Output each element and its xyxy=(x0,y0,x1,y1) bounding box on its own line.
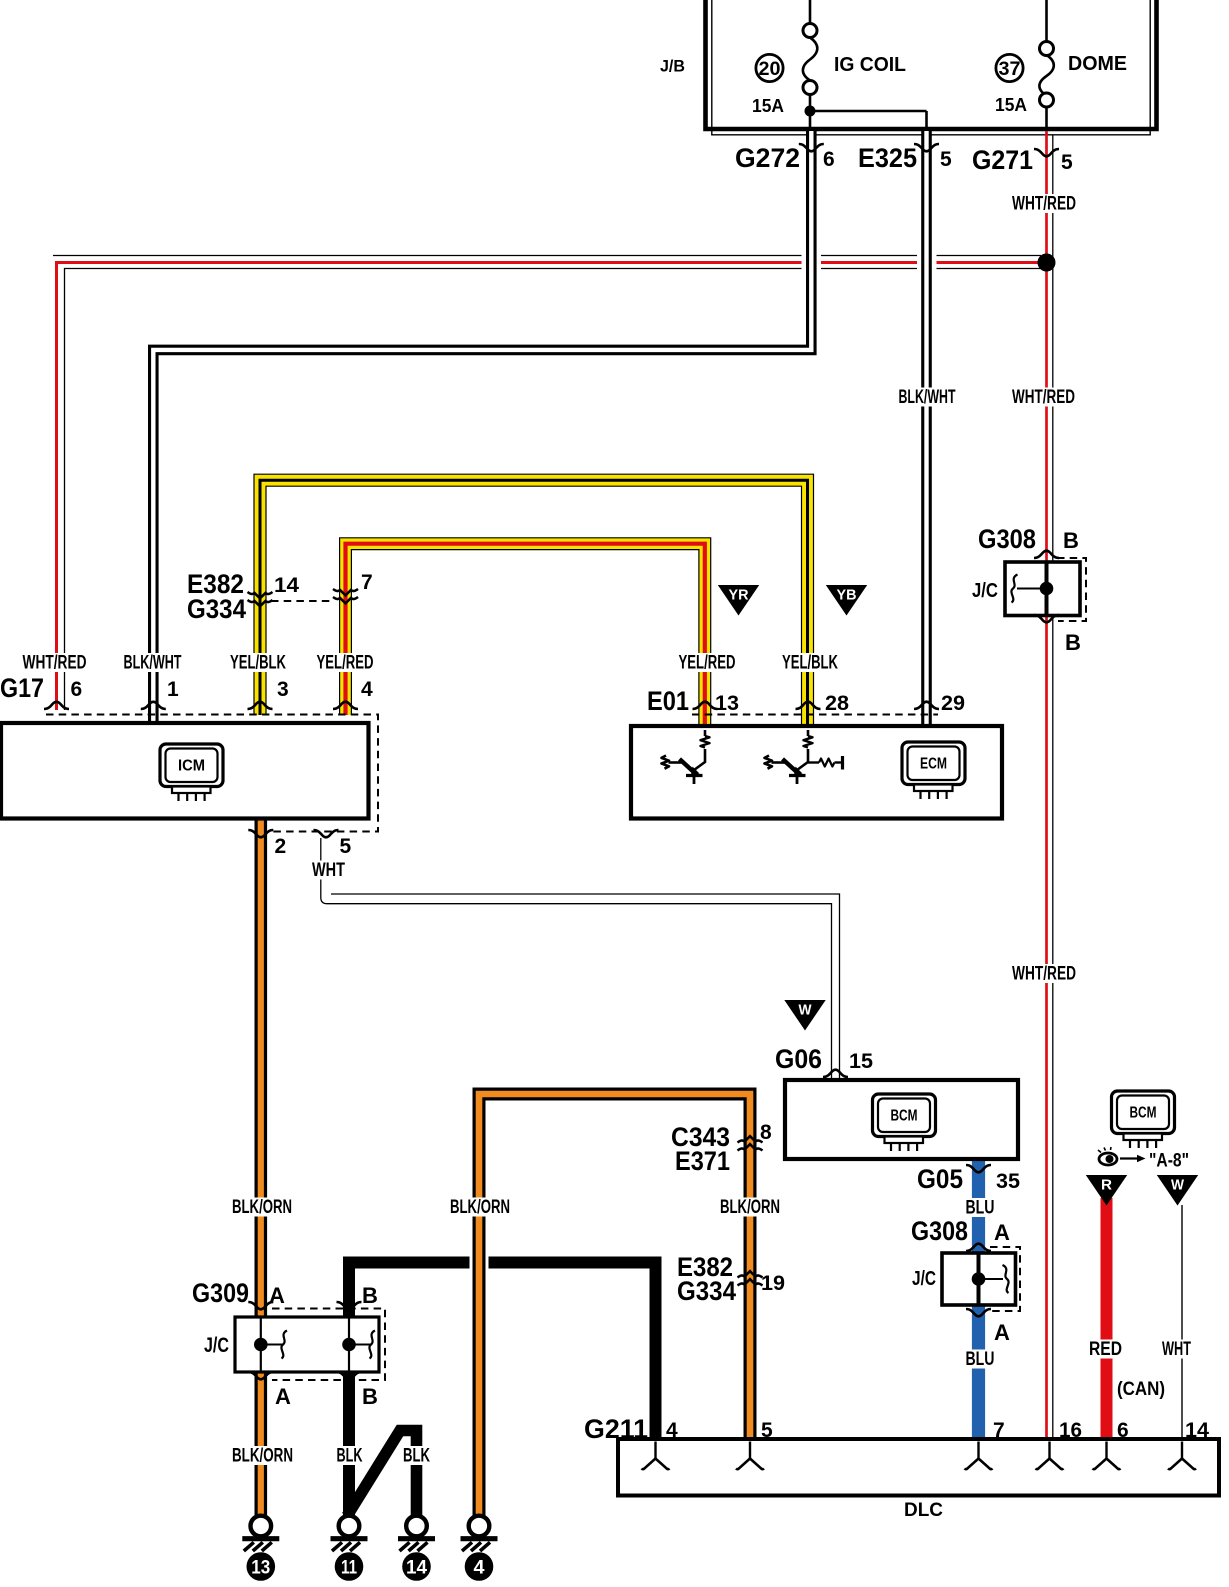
pin B G309 top xyxy=(362,1283,378,1308)
ground 13 xyxy=(242,1516,279,1581)
connector bracket G308 pinA top xyxy=(966,1244,991,1251)
svg-text:37: 37 xyxy=(999,58,1021,80)
pin 35 G05 xyxy=(996,1170,1020,1193)
connector bracket G06 pin15 xyxy=(823,1070,848,1077)
module icon ICM xyxy=(160,744,223,801)
label G308 (lower) xyxy=(911,1216,968,1246)
svg-text:W: W xyxy=(799,1003,812,1019)
pin A G308 lower bottom xyxy=(994,1320,1010,1345)
pin 7 E382/G334 xyxy=(361,571,373,594)
connector chevrons E382/G334 pin14 xyxy=(248,592,273,606)
svg-text:RED: RED xyxy=(1089,1339,1122,1360)
pin 14 E382/G334 xyxy=(274,574,299,597)
label G334 (lower) xyxy=(677,1276,736,1306)
label BLK/ORN (loop right) xyxy=(717,1197,783,1218)
dashed link E382/G334 top xyxy=(271,600,333,602)
label WHT/RED (right, mid) xyxy=(1009,964,1079,985)
label E382 (top) xyxy=(187,569,244,599)
fuse 37 DOME 15A xyxy=(995,0,1127,131)
pin 6 G17 xyxy=(71,678,83,701)
label E371 xyxy=(675,1146,730,1176)
label WHT/RED (G17 pin6 wire) xyxy=(20,653,90,674)
svg-text:R: R xyxy=(1101,1178,1113,1194)
wire WHT/RED vertical G271 pin5 to DLC pin16 xyxy=(1047,131,1053,1439)
module icon BCM standalone top right xyxy=(1112,1091,1175,1148)
svg-text:G271: G271 xyxy=(972,145,1033,175)
DLC pin 7 symbol xyxy=(965,1442,993,1470)
DLC pin 6 symbol xyxy=(1093,1442,1121,1470)
label BLK/WHT (E325 wire) xyxy=(896,387,959,408)
svg-text:3: 3 xyxy=(277,678,289,701)
svg-text:G05: G05 xyxy=(917,1164,963,1194)
svg-text:BCM: BCM xyxy=(891,1108,918,1125)
svg-text:G272: G272 xyxy=(735,143,800,173)
svg-text:6: 6 xyxy=(71,678,83,701)
label BLU (upper) xyxy=(963,1198,998,1219)
connector bracket G308 pinB bottom xyxy=(1034,615,1059,622)
svg-text:BLK/ORN: BLK/ORN xyxy=(232,1446,293,1467)
svg-text:W: W xyxy=(1171,1178,1184,1194)
wire YEL/BLK ICM pin3 to ECM pin28 xyxy=(260,480,808,726)
pin 1 G17 xyxy=(167,678,179,701)
svg-text:B: B xyxy=(362,1283,378,1308)
DLC connector box G211 xyxy=(618,1439,1219,1496)
svg-text:15A: 15A xyxy=(995,94,1027,115)
connector chevrons E382/G334 pin19 xyxy=(738,1271,763,1285)
svg-text:1: 1 xyxy=(167,678,179,701)
DLC pin 16 symbol xyxy=(1036,1442,1064,1470)
svg-text:B: B xyxy=(1065,630,1081,655)
label J/C (G308 top) xyxy=(972,580,998,602)
label G06 xyxy=(775,1044,822,1074)
label G272 xyxy=(735,143,800,173)
svg-text:11: 11 xyxy=(341,1558,357,1579)
svg-text:J/C: J/C xyxy=(204,1334,229,1357)
label G05 xyxy=(917,1164,963,1194)
svg-text:BLK/WHT: BLK/WHT xyxy=(124,653,182,674)
svg-text:BLK: BLK xyxy=(403,1446,430,1467)
svg-text:19: 19 xyxy=(761,1272,785,1295)
BCM connector box G06 xyxy=(785,1080,1018,1159)
label BLK/WHT (ICM pin1 wire) xyxy=(121,653,185,674)
connector bracket G17 pin4 xyxy=(333,702,358,709)
connector bracket ICM pin2 xyxy=(248,830,273,837)
svg-text:14: 14 xyxy=(1185,1419,1209,1442)
junction connector G309 (bottom left) xyxy=(235,1317,379,1372)
svg-text:BCM: BCM xyxy=(1130,1105,1157,1122)
label WHT (ICM pin5 wire) xyxy=(309,860,348,881)
svg-text:BLK/ORN: BLK/ORN xyxy=(720,1197,780,1218)
svg-text:6: 6 xyxy=(823,148,835,171)
svg-text:BLK/WHT: BLK/WHT xyxy=(899,387,956,408)
svg-text:A: A xyxy=(994,1320,1010,1345)
connector chevrons C343/E371 pin8 xyxy=(738,1136,763,1150)
label BLK (ground 11 wire) xyxy=(334,1446,366,1467)
label E01 xyxy=(647,686,689,716)
pin 5 DLC xyxy=(761,1419,773,1442)
label G211 xyxy=(584,1414,648,1444)
svg-text:WHT/RED: WHT/RED xyxy=(1012,387,1075,408)
connector bracket G17 pin3 xyxy=(248,702,273,709)
junction dot fuse20 output xyxy=(805,106,927,132)
wire WHT (CAN) to DLC pin14 xyxy=(1181,1205,1183,1439)
pin A G309 top xyxy=(269,1283,285,1308)
wire BLK/WHT G272 pin6 to ICM pin1 xyxy=(153,131,811,723)
svg-text:BLK: BLK xyxy=(337,1446,363,1467)
connector bracket E325 pin5 xyxy=(914,144,939,151)
label E382 (lower) xyxy=(677,1252,733,1282)
svg-text:35: 35 xyxy=(996,1170,1020,1193)
pin 16 DLC xyxy=(1059,1419,1082,1442)
label YEL/BLK (E01 pin28 wire) xyxy=(779,653,841,674)
svg-text:15: 15 xyxy=(849,1050,873,1073)
pin 8 C343 xyxy=(760,1121,772,1144)
svg-text:2: 2 xyxy=(275,835,287,858)
pin 14 DLC xyxy=(1185,1419,1209,1442)
ground 14 xyxy=(398,1516,435,1581)
pin 15 G06 xyxy=(849,1050,873,1073)
dashed box G309 xyxy=(272,1309,385,1381)
connector bracket E01 pin13 xyxy=(693,702,718,709)
wire BLK G309 pin B to DLC pin4 xyxy=(349,1263,656,1518)
junction connector G308 (top right) xyxy=(1005,562,1080,616)
pin 5 ICM xyxy=(340,835,352,858)
svg-text:J/C: J/C xyxy=(912,1268,936,1290)
pin 2 ICM xyxy=(275,835,287,858)
svg-text:J/B: J/B xyxy=(660,57,685,76)
label RED (CAN wire) xyxy=(1086,1339,1125,1360)
svg-text:BLK/ORN: BLK/ORN xyxy=(232,1197,292,1218)
svg-text:5: 5 xyxy=(761,1419,773,1442)
label BLK (ground 14 wire) xyxy=(400,1446,433,1467)
pin 13 E01 xyxy=(715,692,739,715)
label BLK/ORN (ground 13 wire) xyxy=(229,1446,296,1467)
label WHT/RED (G271 wire) xyxy=(1009,194,1079,215)
junction dot WHT/RED xyxy=(1038,254,1056,272)
label (CAN) xyxy=(1117,1379,1165,1400)
pin B G308 top xyxy=(1063,528,1079,553)
wire WHT/RED horizontal run G271 to G17 xyxy=(53,256,1042,711)
wire BLU BCM G05 pin35 to DLC pin7 xyxy=(972,1159,985,1439)
label G308 (top) xyxy=(978,524,1036,554)
dashed box G308 top xyxy=(1057,558,1086,621)
connector bracket G05 pin35 xyxy=(966,1165,991,1172)
svg-text:G309: G309 xyxy=(192,1278,249,1308)
wire BLK ground 11 to ground 14 branch xyxy=(347,1431,417,1518)
pin B G308 bottom xyxy=(1065,630,1081,655)
svg-text:YEL/BLK: YEL/BLK xyxy=(230,653,286,674)
connector bracket ICM pin5 xyxy=(314,830,339,837)
dashed connector line G17 xyxy=(46,715,378,832)
module icon ECM xyxy=(902,742,965,799)
ground 4 xyxy=(461,1516,498,1581)
dashed box G308 lower xyxy=(990,1247,1020,1311)
label BLU (lower) xyxy=(963,1349,998,1370)
wire WHT ICM pin5 to BCM G06 pin15 xyxy=(321,838,840,1080)
svg-text:WHT/RED: WHT/RED xyxy=(1012,194,1076,215)
label YEL/RED (ICM pin4 wire) xyxy=(314,653,377,674)
junction connector G308 (lower, BLU) xyxy=(942,1253,1016,1305)
junction block J/B box xyxy=(706,0,1157,135)
pin 5 G271 xyxy=(1061,151,1073,174)
DLC pin 14 symbol xyxy=(1168,1442,1196,1470)
svg-text:G17: G17 xyxy=(0,673,44,703)
svg-text:A: A xyxy=(275,1384,291,1409)
svg-text:A: A xyxy=(269,1283,285,1308)
svg-text:BLK/ORN: BLK/ORN xyxy=(450,1197,510,1218)
svg-text:IG COIL: IG COIL xyxy=(834,54,906,76)
svg-text:DLC: DLC xyxy=(904,1499,943,1521)
resistor in ECM right of pin28 transistor xyxy=(808,756,843,770)
svg-text:YEL/RED: YEL/RED xyxy=(679,653,736,674)
pin 28 E01 xyxy=(825,692,849,715)
pin 3 G17 xyxy=(277,678,289,701)
connector bracket G17 pin6 xyxy=(44,702,69,709)
connector bracket E01 pin29 xyxy=(914,702,939,709)
svg-text:4: 4 xyxy=(666,1419,678,1442)
ground 11 xyxy=(331,1516,368,1581)
svg-text:4: 4 xyxy=(474,1558,485,1579)
svg-text:G06: G06 xyxy=(775,1044,822,1074)
connector bracket G309 pinA top xyxy=(248,1302,273,1309)
svg-text:BLU: BLU xyxy=(966,1349,995,1370)
ICM connector box G17 xyxy=(1,723,369,819)
connector bracket G271 pin5 xyxy=(1034,149,1059,156)
svg-text:WHT/RED: WHT/RED xyxy=(1012,964,1076,985)
svg-text:7: 7 xyxy=(993,1419,1005,1442)
label G309 xyxy=(192,1278,249,1308)
svg-text:"A-8": "A-8" xyxy=(1149,1151,1189,1172)
pin 7 DLC xyxy=(993,1419,1005,1442)
pin 4 G17 xyxy=(361,678,373,701)
svg-text:G334: G334 xyxy=(677,1276,736,1306)
svg-text:13: 13 xyxy=(715,692,739,715)
svg-text:G211: G211 xyxy=(584,1414,648,1444)
fuse 20 IG COIL 15A xyxy=(752,0,906,131)
pin 19 E382 lower xyxy=(761,1272,785,1295)
triangle marker W (CAN wht) xyxy=(1157,1175,1198,1206)
wire BLK/ORN ground 4 loop to DLC pin5 xyxy=(479,1094,750,1517)
svg-text:20: 20 xyxy=(759,58,781,80)
svg-text:YR: YR xyxy=(729,588,750,604)
svg-text:ECM: ECM xyxy=(920,756,947,773)
svg-text:YEL/RED: YEL/RED xyxy=(317,653,374,674)
pin 4 DLC xyxy=(666,1419,678,1442)
svg-text:14: 14 xyxy=(274,574,299,597)
wire BLK/ORN ICM pin2 to G309 pinA to ground 13 xyxy=(254,819,267,1518)
label E325 xyxy=(858,143,917,173)
label BLK/ORN (ICM pin2 wire) xyxy=(229,1197,295,1218)
svg-text:15A: 15A xyxy=(752,95,784,116)
connector bracket E01 pin28 xyxy=(796,702,821,709)
label G271 xyxy=(972,145,1033,175)
svg-text:BLU: BLU xyxy=(966,1198,995,1219)
svg-text:YEL/BLK: YEL/BLK xyxy=(782,653,838,674)
svg-text:J/C: J/C xyxy=(972,580,998,602)
svg-text:14: 14 xyxy=(406,1558,427,1579)
connector bracket G309 pinB bottom xyxy=(337,1372,362,1379)
connector bracket G308 pinB top xyxy=(1034,551,1059,558)
label BLK/ORN (loop left) xyxy=(447,1197,513,1218)
pin 29 E01 xyxy=(941,692,965,715)
svg-text:4: 4 xyxy=(361,678,373,701)
label DLC xyxy=(904,1499,943,1521)
triangle marker R (CAN red) xyxy=(1086,1175,1127,1206)
svg-text:DOME: DOME xyxy=(1068,53,1127,75)
svg-text:E371: E371 xyxy=(675,1146,730,1176)
svg-text:E01: E01 xyxy=(647,686,689,716)
label J/C (G308 lower) xyxy=(912,1268,936,1290)
label J/B xyxy=(660,57,685,76)
label YEL/BLK (ICM pin3 wire) xyxy=(227,653,289,674)
wire YEL/RED ICM pin4 to ECM pin13 xyxy=(346,544,705,726)
svg-text:YB: YB xyxy=(837,588,857,604)
connector bracket G272 pin6 xyxy=(799,144,824,151)
svg-text:8: 8 xyxy=(760,1121,772,1144)
DLC pin 4 symbol xyxy=(642,1442,670,1470)
svg-text:B: B xyxy=(362,1384,378,1409)
dashed connector line E01 xyxy=(692,714,938,716)
transistor in ECM at pin28 with resistor xyxy=(765,730,813,784)
connector bracket G309 pinB top xyxy=(337,1302,362,1309)
connector bracket G309 pinA bottom xyxy=(248,1372,273,1379)
svg-text:G334: G334 xyxy=(187,594,246,624)
pin 5 E325 xyxy=(940,148,952,171)
svg-text:B: B xyxy=(1063,528,1079,553)
svg-text:WHT: WHT xyxy=(1162,1339,1191,1360)
connector bracket G17 pin1 xyxy=(141,702,166,709)
label YEL/RED (E01 pin13 wire) xyxy=(676,653,739,674)
connector chevrons E382/G334 pin7 xyxy=(333,589,358,603)
transistor in ECM at pin13 xyxy=(662,730,710,784)
ECM connector box E01 xyxy=(631,726,1002,819)
svg-text:(CAN): (CAN) xyxy=(1117,1379,1165,1400)
svg-text:5: 5 xyxy=(940,148,952,171)
wire RED (CAN) to DLC pin6 xyxy=(1101,1198,1113,1439)
label J/C (G309) xyxy=(204,1334,229,1357)
svg-text:7: 7 xyxy=(361,571,373,594)
DLC pin 5 symbol xyxy=(736,1442,764,1470)
svg-text:E325: E325 xyxy=(858,143,917,173)
triangle marker YB xyxy=(826,585,867,616)
svg-text:28: 28 xyxy=(825,692,849,715)
pin 6 DLC xyxy=(1117,1419,1129,1442)
triangle marker YR xyxy=(718,585,759,616)
connector bracket G308 pinA bottom xyxy=(966,1309,991,1316)
svg-text:13: 13 xyxy=(251,1558,270,1579)
wire BLK/WHT E325 pin5 to ECM pin29 xyxy=(921,131,932,726)
svg-text:WHT: WHT xyxy=(312,860,345,881)
pin 6 G272 xyxy=(823,148,835,171)
svg-text:G308: G308 xyxy=(911,1216,968,1246)
svg-text:6: 6 xyxy=(1117,1419,1129,1442)
svg-text:WHT/RED: WHT/RED xyxy=(23,653,87,674)
triangle marker W (above G06) xyxy=(784,1000,825,1031)
label WHT (CAN wire) xyxy=(1159,1339,1194,1360)
svg-text:G308: G308 xyxy=(978,524,1036,554)
svg-text:16: 16 xyxy=(1059,1419,1082,1442)
svg-text:A: A xyxy=(994,1220,1010,1245)
svg-text:5: 5 xyxy=(340,835,352,858)
pin B G309 bottom xyxy=(362,1384,378,1409)
pin A G309 bottom xyxy=(275,1384,291,1409)
page reference eye icon and A-8 xyxy=(1098,1147,1189,1172)
svg-text:29: 29 xyxy=(941,692,965,715)
label G334 (top) xyxy=(187,594,246,624)
label WHT/RED (right, upper) xyxy=(1009,387,1078,408)
label C343 xyxy=(671,1122,730,1152)
svg-text:ICM: ICM xyxy=(178,758,205,775)
svg-text:5: 5 xyxy=(1061,151,1073,174)
module icon BCM inside G06 box xyxy=(873,1094,936,1151)
pin A G308 lower top xyxy=(994,1220,1010,1245)
label G17 xyxy=(0,673,44,703)
